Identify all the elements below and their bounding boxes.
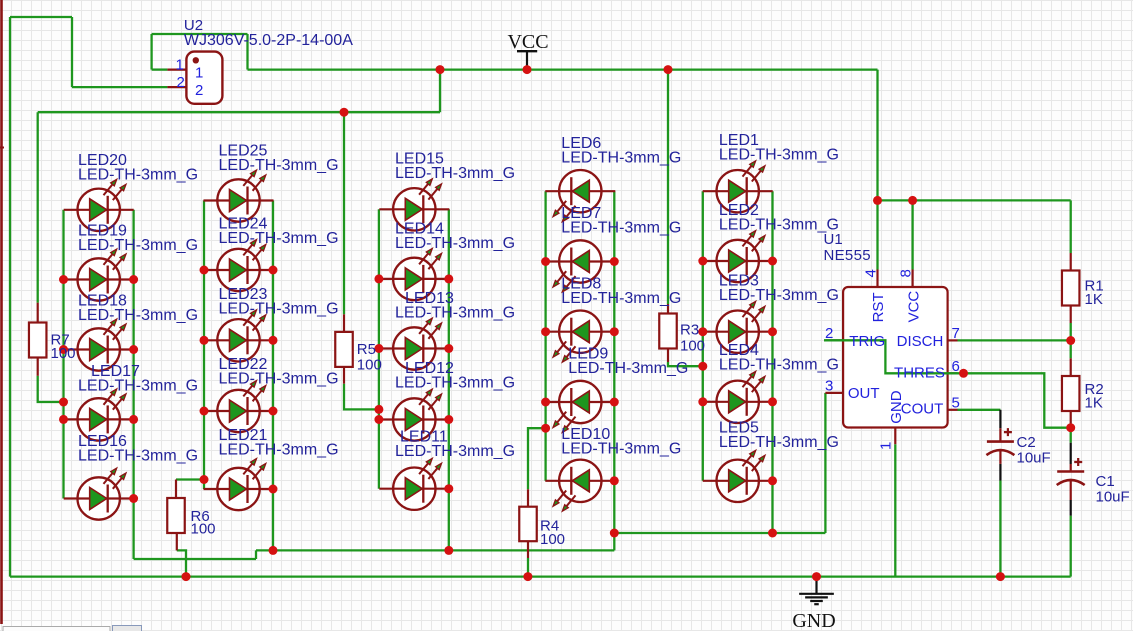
svg-text:LED-TH-3mm_G: LED-TH-3mm_G	[561, 150, 681, 167]
svg-text:LED-TH-3mm_G: LED-TH-3mm_G	[219, 300, 339, 317]
svg-text:1K: 1K	[1085, 395, 1103, 412]
svg-text:100: 100	[191, 521, 216, 538]
svg-text:LED-TH-3mm_G: LED-TH-3mm_G	[219, 371, 339, 388]
svg-text:10uF: 10uF	[1096, 489, 1130, 506]
svg-text:NE555: NE555	[824, 247, 871, 264]
svg-text:5: 5	[952, 395, 960, 412]
svg-text:LED-TH-3mm_G: LED-TH-3mm_G	[395, 305, 515, 322]
svg-text:1: 1	[176, 56, 184, 73]
svg-text:10uF: 10uF	[1017, 450, 1051, 467]
svg-text:TRIG: TRIG	[849, 333, 885, 350]
svg-text:GND: GND	[888, 390, 905, 424]
svg-text:LED-TH-3mm_G: LED-TH-3mm_G	[395, 165, 515, 182]
svg-text:LED-TH-3mm_G: LED-TH-3mm_G	[561, 441, 681, 458]
svg-text:LED-TH-3mm_G: LED-TH-3mm_G	[719, 434, 839, 451]
svg-text:LED-TH-3mm_G: LED-TH-3mm_G	[561, 220, 681, 237]
svg-text:R3: R3	[680, 322, 699, 339]
svg-text:100: 100	[540, 531, 565, 548]
svg-text:LED-TH-3mm_G: LED-TH-3mm_G	[719, 147, 839, 164]
svg-text:LED-TH-3mm_G: LED-TH-3mm_G	[219, 157, 339, 174]
svg-text:2: 2	[825, 325, 833, 342]
svg-text:1: 1	[877, 442, 894, 450]
svg-text:U1: U1	[824, 231, 843, 248]
svg-text:2: 2	[195, 82, 203, 99]
svg-text:100: 100	[680, 338, 705, 355]
svg-text:1: 1	[195, 64, 203, 81]
svg-text:LED-TH-3mm_G: LED-TH-3mm_G	[395, 235, 515, 252]
svg-text:1K: 1K	[1085, 291, 1103, 308]
svg-text:GND: GND	[792, 610, 835, 631]
svg-text:6: 6	[952, 358, 960, 375]
svg-text:OUT: OUT	[848, 385, 880, 402]
svg-text:4: 4	[863, 269, 880, 277]
svg-text:100: 100	[357, 357, 382, 374]
svg-text:LED-TH-3mm_G: LED-TH-3mm_G	[78, 377, 198, 394]
svg-text:LED-TH-3mm_G: LED-TH-3mm_G	[395, 443, 515, 460]
svg-text:C1: C1	[1096, 473, 1115, 490]
svg-text:100: 100	[51, 345, 76, 362]
svg-text:3: 3	[825, 378, 833, 395]
svg-text:7: 7	[952, 325, 960, 342]
svg-text:LED-TH-3mm_G: LED-TH-3mm_G	[219, 230, 339, 247]
svg-text:LED-TH-3mm_G: LED-TH-3mm_G	[395, 374, 515, 391]
svg-text:THRES: THRES	[894, 365, 945, 382]
svg-text:VCC: VCC	[906, 291, 923, 323]
svg-text:RST: RST	[870, 292, 887, 322]
svg-text:LED-TH-3mm_G: LED-TH-3mm_G	[78, 448, 198, 465]
svg-text:LED-TH-3mm_G: LED-TH-3mm_G	[219, 441, 339, 458]
svg-text:VCC: VCC	[507, 31, 548, 53]
svg-text:LED-TH-3mm_G: LED-TH-3mm_G	[719, 217, 839, 234]
svg-text:R5: R5	[357, 341, 376, 358]
svg-text:LED-TH-3mm_G: LED-TH-3mm_G	[719, 287, 839, 304]
svg-text:LED-TH-3mm_G: LED-TH-3mm_G	[78, 307, 198, 324]
svg-text:2: 2	[177, 74, 185, 91]
svg-text:LED-TH-3mm_G: LED-TH-3mm_G	[78, 167, 198, 184]
svg-text:DISCH: DISCH	[897, 333, 944, 350]
svg-text:WJ306V-5.0-2P-14-00A: WJ306V-5.0-2P-14-00A	[184, 32, 353, 49]
svg-text:8: 8	[898, 269, 915, 277]
svg-text:LED-TH-3mm_G: LED-TH-3mm_G	[561, 290, 681, 307]
svg-text:LED-TH-3mm_G: LED-TH-3mm_G	[78, 237, 198, 254]
svg-text:COUT: COUT	[901, 401, 944, 418]
svg-text:C2: C2	[1017, 434, 1036, 451]
svg-text:LED-TH-3mm_G: LED-TH-3mm_G	[719, 357, 839, 374]
svg-text:LED-TH-3mm_G: LED-TH-3mm_G	[568, 360, 688, 377]
